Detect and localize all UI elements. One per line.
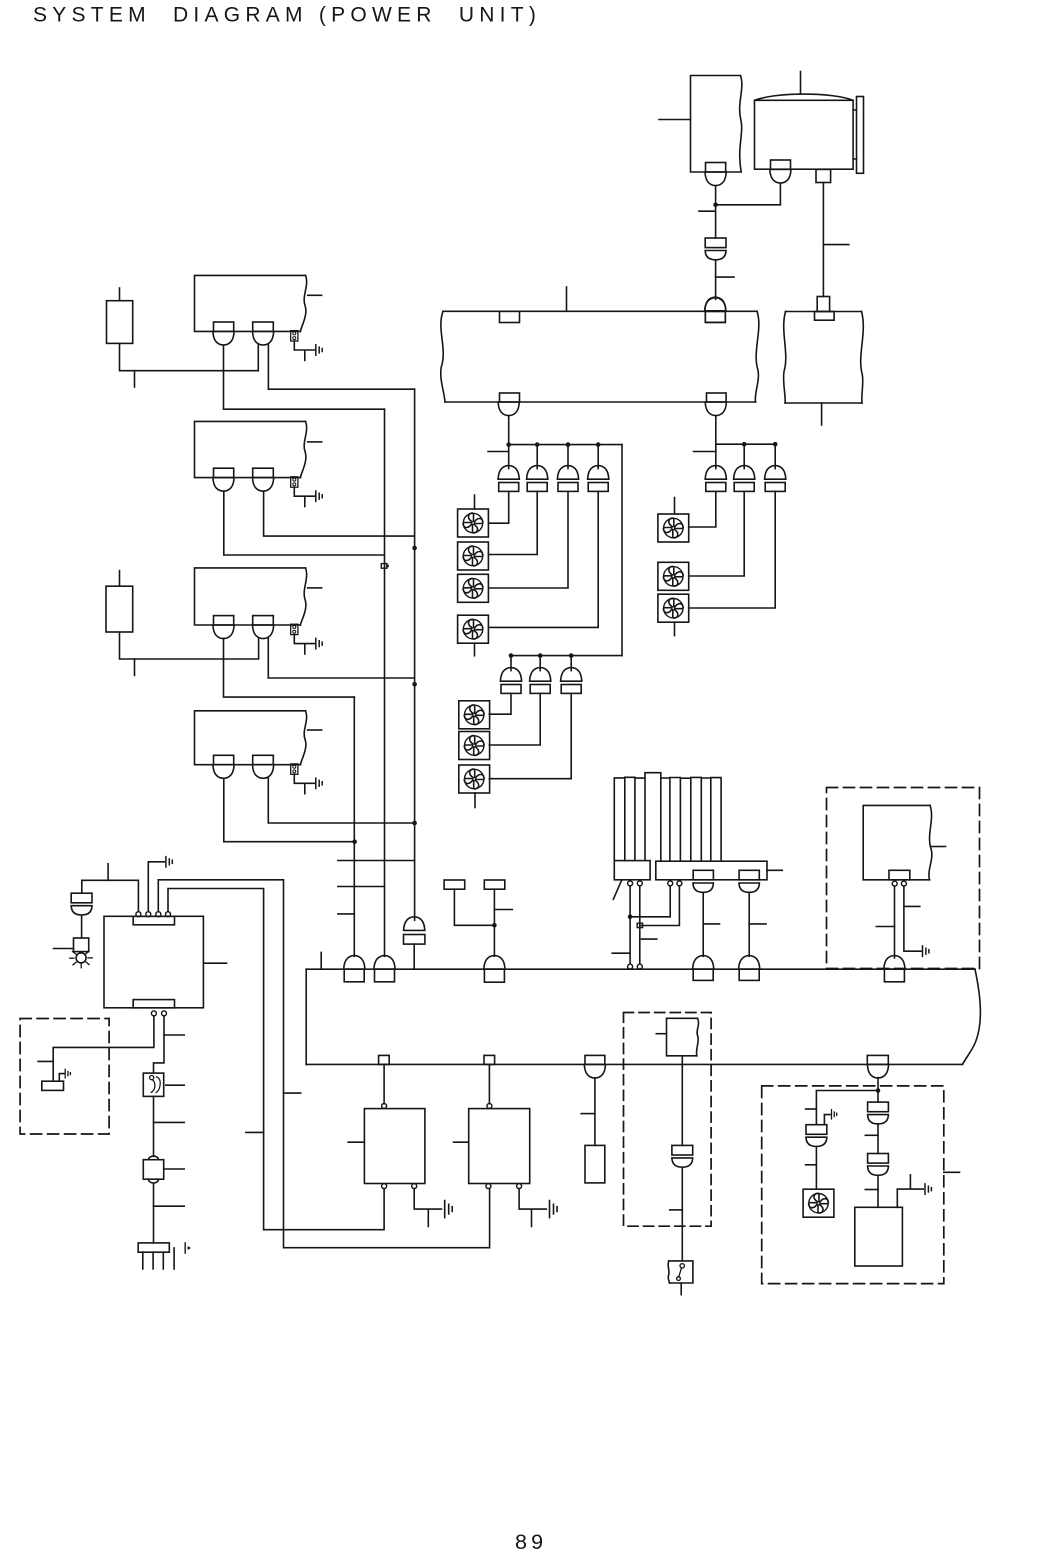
label tick: [612, 952, 630, 954]
top pin: [382, 1104, 387, 1109]
label tick: [806, 1108, 817, 1110]
wire box3 conn3b to bus C: [268, 638, 414, 678]
wire: [715, 260, 717, 299]
compressor box: [855, 1207, 903, 1266]
ground: [445, 1201, 453, 1218]
wire c7 to fan 7: [489, 693, 571, 778]
wire to ground: [414, 1189, 441, 1227]
mating connector into right box: [815, 297, 835, 321]
fan motor 6: [459, 732, 490, 760]
fuse box2: [291, 477, 298, 487]
wire c5 to fan 5: [489, 693, 511, 714]
wire cap to connector 3b: [120, 632, 259, 659]
wire to ground: [519, 1189, 546, 1227]
label tick on wire B: [246, 1131, 264, 1133]
resistor block: [585, 1145, 605, 1183]
harness box (torn both ends): [441, 311, 759, 402]
wire stub into top-left unit: [659, 119, 691, 121]
capacitor block left of box3: [106, 571, 133, 632]
label leader tick to bus B: [338, 886, 385, 888]
wire down through bus box: [681, 1056, 683, 1146]
label tick: [865, 1189, 878, 1191]
connector 1a: [213, 322, 234, 345]
connector pair c1: [498, 466, 519, 492]
terminal block 2: [484, 880, 505, 889]
connector 4b: [253, 755, 274, 778]
wire: [877, 1124, 879, 1153]
inline connector mark: [637, 923, 642, 927]
wire box1 conn1a to bus B: [224, 345, 385, 409]
unit box 3 (torn right edge): [195, 568, 307, 625]
unit box 2 (torn right edge): [195, 421, 307, 477]
junction: [628, 915, 633, 920]
wire: [715, 186, 717, 238]
junction dots on rail 3: [742, 442, 778, 447]
connector 3a: [213, 616, 234, 639]
rail 1 right return wire: [621, 445, 623, 656]
capacitor pair: [672, 1145, 693, 1167]
wire box B pin to wire 2: [640, 886, 680, 926]
pin terminals under box A: [628, 881, 643, 886]
tick crossing right edge: [944, 1171, 960, 1173]
fan motor 1: [458, 495, 489, 537]
label tick: [806, 1164, 817, 1166]
top pin: [487, 1104, 492, 1109]
fan motor 3: [458, 574, 489, 602]
base box A: [614, 861, 650, 880]
fan motor 11: [803, 1189, 834, 1217]
ground box1: [316, 345, 322, 355]
top edge connector (fins right): [739, 956, 760, 981]
ground box3: [316, 638, 322, 648]
bus B: [384, 409, 386, 956]
connector pair c6: [530, 668, 551, 694]
pin terminals on top: [136, 912, 171, 917]
dashed enclosure: [20, 1019, 109, 1135]
wire box4 conn4a to bus A: [224, 778, 355, 841]
ground box2: [316, 491, 322, 501]
harness bottom connector A: [498, 393, 519, 416]
wire from bus box: [383, 1064, 385, 1103]
capacitor pair right branch 2: [868, 1154, 889, 1176]
plug dome below (left): [693, 883, 713, 892]
stub right of inner unit: [932, 846, 946, 848]
harness bottom connector B: [705, 393, 726, 416]
unit block (torn right edge) top-left of motor: [691, 76, 742, 173]
connector 3b: [253, 616, 274, 639]
label tick: [164, 1034, 184, 1036]
wire cap to connector 1b: [120, 343, 259, 370]
stub left: [38, 1060, 53, 1062]
fin stack: [614, 773, 721, 861]
connector pair c9: [734, 466, 755, 492]
capacitor pair on feed: [71, 880, 92, 915]
label tick: [876, 926, 894, 928]
fan motor 9: [658, 562, 689, 590]
connector pair c2: [527, 466, 548, 492]
wire to compressor: [877, 1176, 879, 1208]
top edge connector (fins left): [693, 956, 714, 981]
wire box B pin to wire 1: [630, 886, 670, 917]
sensor box (torn right edge): [667, 1018, 699, 1056]
connector pair c8: [705, 466, 726, 492]
bus A: [353, 697, 355, 956]
connector socket in box B (right): [739, 870, 759, 880]
plug dome below (right): [739, 883, 759, 892]
wire c10 to fan 10: [689, 491, 776, 608]
unit box 4 (torn right edge): [195, 711, 307, 765]
fan motor 5: [459, 701, 490, 729]
label tick: [164, 1168, 185, 1170]
control unit box: [104, 916, 203, 1008]
wire to fan: [815, 1147, 817, 1189]
relay box 2: [469, 1109, 530, 1184]
capacitor block left of box1: [107, 288, 133, 343]
junction: [492, 923, 497, 928]
fan feed rail 3: [716, 443, 775, 445]
pin wire 2: [639, 886, 641, 964]
mini ground lead: [824, 1115, 830, 1125]
base box B: [656, 861, 767, 880]
label tick on wire A: [284, 1092, 301, 1094]
connector top-right (dome above, socket below): [705, 297, 726, 322]
dashed enclosure: [624, 1013, 712, 1227]
bottom edge connector (right): [867, 1055, 888, 1078]
label tick: [154, 1121, 185, 1123]
wire box1 conn1b to bus C: [268, 345, 414, 389]
dashed enclosure: [827, 788, 980, 969]
terminal block: [42, 1081, 64, 1090]
wire from bus box: [488, 1064, 490, 1103]
capacitor pair in motor lead: [705, 238, 726, 260]
wire harness A down to rail: [508, 416, 510, 469]
wire B: pin4 to relay box 1: [168, 889, 384, 1230]
connector 1b: [253, 322, 274, 345]
fuse box1: [291, 331, 298, 341]
wire c2 to fan 2: [489, 491, 538, 554]
fuse box3: [291, 624, 298, 634]
terminal block 1: [444, 880, 465, 889]
ground lead: [59, 1074, 63, 1082]
ground at top: [148, 857, 172, 912]
label tick: [166, 1084, 184, 1086]
ground box4: [316, 778, 322, 788]
fan motor unit body: [755, 72, 854, 170]
wire down: [153, 1096, 155, 1156]
bus box outline (torn right edge): [306, 969, 980, 1064]
label tick: [154, 1205, 185, 1207]
connector pair c4: [588, 466, 609, 492]
connector CN under unit block: [705, 163, 726, 186]
wire harness B down to rail 3: [715, 416, 717, 469]
wire down: [153, 1183, 155, 1243]
label tick: [904, 905, 920, 907]
junction: [876, 1088, 881, 1093]
capacitor pair left branch: [806, 1125, 827, 1147]
wire A: pin3 to relay box 2: [158, 880, 489, 1248]
stub right box2: [308, 441, 322, 443]
dashed enclosure: [762, 1086, 944, 1284]
branch wire to left: [816, 1091, 878, 1125]
mounting bracket plate: [853, 97, 863, 174]
stub tick: [134, 371, 136, 387]
label tick: [694, 451, 716, 453]
connector 4a: [213, 755, 234, 778]
stub on top edge: [320, 952, 322, 969]
mini ground: [65, 1069, 70, 1078]
wire from control pin R: [154, 1016, 165, 1073]
feed line to pin 1: [82, 880, 139, 911]
inner unit box (torn right edge): [863, 805, 932, 879]
connector pair c5: [500, 668, 521, 694]
wire c1 to fan 1: [489, 491, 509, 523]
wire left pin down to bus connector: [894, 886, 896, 958]
capacitor pair right branch 1: [868, 1102, 889, 1124]
wire c9 to fan 9: [689, 491, 745, 576]
leader slash: [613, 881, 621, 900]
ground lead box3: [294, 635, 314, 654]
wire left plug to harness: [702, 892, 704, 956]
connector 2b: [253, 468, 274, 491]
junction dots on bus C: [412, 546, 417, 687]
bottom edge terminal (to relay box 1): [379, 1055, 390, 1064]
wire c6 to fan 6: [489, 693, 540, 745]
wire terminal2 down to connector: [493, 889, 495, 956]
connector onto main harness box: [705, 298, 726, 323]
label tick: [716, 276, 734, 278]
ground lead box1: [294, 341, 314, 360]
fan motor 7: [459, 765, 490, 808]
top edge connector (bus A): [344, 956, 365, 982]
drop wires: [744, 444, 775, 468]
label leader tick to bus A: [338, 913, 354, 915]
label tick: [865, 1134, 878, 1136]
relay box 1: [364, 1109, 425, 1184]
stub left: [348, 1141, 364, 1143]
wire box2 conn2a to bus B: [224, 491, 385, 555]
wire from connector: [594, 1078, 596, 1146]
ground: [925, 1184, 931, 1194]
fan motor 8: [658, 498, 689, 543]
label tick: [581, 1113, 595, 1115]
connector pair c10: [765, 466, 786, 492]
stub right of base box B: [767, 869, 782, 871]
switch box: [143, 1073, 163, 1096]
fan motor 4: [458, 615, 489, 656]
svg-text:89: 89: [515, 1530, 547, 1554]
pin wire 1: [629, 886, 631, 964]
wire to indicator: [81, 915, 83, 938]
bottom connector header: [138, 1243, 174, 1269]
top edge connector (center): [484, 956, 505, 983]
connector socket top-left: [500, 311, 520, 322]
bottom pins: [382, 1184, 417, 1189]
label tick: [699, 210, 716, 212]
svg-text:SYSTEM DIAGRAM (POWER UNIT): SYSTEM DIAGRAM (POWER UNIT): [33, 4, 541, 27]
stub right of control unit: [203, 962, 226, 964]
indicator lamp: [70, 951, 93, 968]
wire c8 to fan 8: [689, 491, 716, 527]
pressure switch (torn left edge): [668, 1261, 693, 1283]
junction dots on rail 1: [506, 442, 600, 447]
ground lead box2: [294, 487, 314, 506]
connector socket in box B (left): [693, 870, 713, 880]
wire terminal1 to junction: [454, 889, 494, 925]
label tick: [749, 923, 766, 925]
connector socket under inner unit: [889, 870, 910, 880]
ground: [923, 946, 929, 956]
fan motor 2: [458, 542, 489, 570]
connector polarity mark: [185, 1243, 191, 1253]
mini ground: [832, 1110, 837, 1119]
unit box 1 (torn right edge): [195, 275, 307, 331]
bottom edge connector (center): [584, 1055, 605, 1078]
wire box2 conn2b to bus C: [264, 491, 415, 536]
wire box3 conn3a to bus A: [224, 638, 355, 697]
drop wires: [511, 656, 571, 671]
ground lead from compressor: [897, 1175, 923, 1207]
stub right box3: [308, 587, 322, 589]
wire right plug to harness: [748, 892, 750, 956]
label tick: [642, 938, 657, 940]
wire down from motor right connector: [822, 183, 824, 297]
stub right box4: [308, 729, 322, 731]
label tick: [494, 909, 512, 911]
connector under motor right: [816, 169, 831, 182]
wire c3 to fan 3: [489, 491, 568, 588]
junction: [713, 203, 718, 208]
stub under second harness box: [821, 403, 823, 425]
wire below switch: [680, 1283, 682, 1295]
stub left: [454, 1141, 469, 1143]
bottom pins: [486, 1184, 522, 1189]
label leader ticks to buses: [338, 860, 415, 862]
wire from control pin L: [53, 1016, 154, 1081]
label tick: [823, 244, 848, 246]
stub above harness box: [566, 287, 568, 311]
inline connector mark on bus B: [381, 564, 389, 569]
connector 2a: [213, 468, 234, 491]
wire down: [681, 1167, 683, 1261]
indicator housing: [74, 938, 89, 952]
junction on bus A: [352, 839, 357, 844]
connector under motor left: [770, 160, 791, 183]
pin terminals on top edge: [628, 964, 643, 969]
bus C plug-socket termination: [404, 917, 425, 969]
top edge connector (right dashed unit): [884, 956, 905, 982]
label tick: [488, 451, 509, 453]
connector pair c3: [557, 466, 578, 492]
stub right box1: [308, 294, 322, 296]
bottom edge terminal (to relay box 2): [484, 1055, 495, 1064]
wire c4 to fan 4: [489, 491, 599, 627]
label tick: [670, 1209, 683, 1211]
ground lead box4: [294, 774, 314, 793]
fan feed rail 2: [511, 655, 622, 657]
pin terminals on bottom: [151, 1011, 166, 1016]
stub tick: [134, 659, 136, 675]
fuse box4: [291, 764, 298, 774]
connector pair c7: [561, 668, 582, 694]
junction dots on rail 2: [509, 653, 574, 658]
stub left of indicator: [54, 948, 74, 950]
wire motor-left to junction: [716, 183, 781, 205]
pin terminals: [892, 881, 906, 886]
pin terminals under box B left: [668, 881, 682, 886]
fan motor 10: [658, 594, 689, 635]
fan feed rail 1: [509, 444, 623, 446]
stub left of sensor box: [656, 1033, 666, 1035]
junction on bus C: [412, 821, 417, 826]
ground: [550, 1201, 558, 1218]
bus C: [414, 389, 416, 920]
drop wires to connectors: [537, 445, 598, 469]
wire box4 conn4b to bus C: [268, 778, 414, 823]
wire from bus connector: [877, 1078, 879, 1103]
top edge connector (bus B): [374, 956, 395, 982]
label tick: [703, 923, 719, 925]
wire right pin to ground: [904, 886, 921, 951]
inline component (thermal protector): [143, 1156, 163, 1183]
stub above feed line: [107, 864, 109, 881]
